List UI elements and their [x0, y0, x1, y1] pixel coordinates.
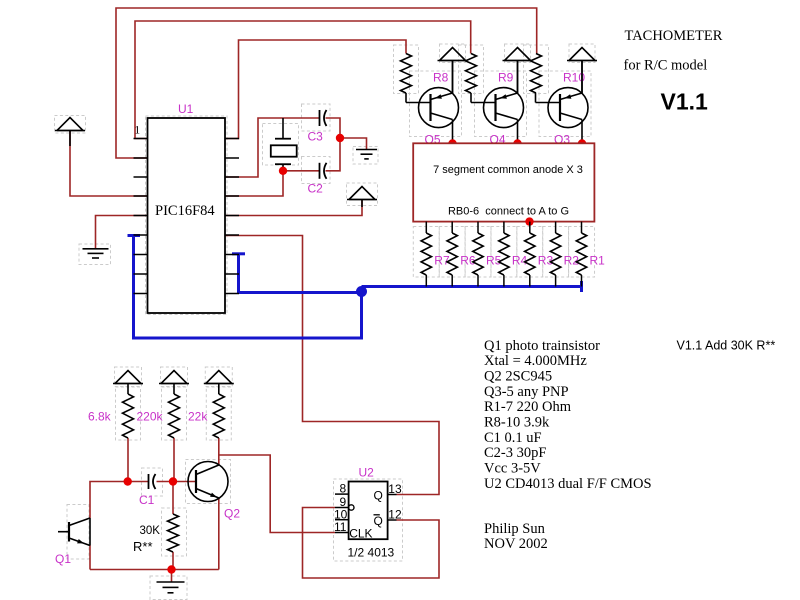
- wire: C3 right to junction: [326, 118, 341, 171]
- svg-text:C2-3 30pF: C2-3 30pF: [484, 445, 546, 461]
- wire: node to Q1 collector and emitter rail: [90, 482, 128, 519]
- transistor Q3 PNP: [548, 88, 588, 128]
- svg-text:R7: R7: [434, 254, 450, 268]
- svg-text:C1: C1: [139, 493, 155, 507]
- display block: 7 segment common anode X 3: [413, 143, 594, 221]
- svg-text:R2: R2: [564, 254, 580, 268]
- svg-text:CLK: CLK: [349, 527, 372, 541]
- resistor R7 220 Ohm: [425, 222, 427, 233]
- svg-text:R3: R3: [538, 254, 554, 268]
- svg-text:R1: R1: [590, 254, 606, 268]
- svg-text:NOV 2002: NOV 2002: [484, 536, 548, 552]
- IC U1 PIC16F84 body: [148, 118, 226, 313]
- resistor 22k: [213, 394, 224, 438]
- node: Q4 collector junction: [513, 139, 521, 147]
- U2 pin 8 stub: [335, 493, 349, 495]
- svg-text:Vcc 3-5V: Vcc 3-5V: [484, 460, 541, 476]
- svg-text:RB0-6 connect to A to G: RB0-6 connect to A to G: [448, 205, 569, 217]
- U1 right pin stubs: [225, 138, 239, 140]
- wire: 22k bottom to Q2 collector: [218, 438, 220, 465]
- svg-text:R5: R5: [486, 254, 502, 268]
- svg-text:R8: R8: [433, 71, 449, 85]
- node: rail / 30K / ground junction: [167, 565, 175, 573]
- capacitor C3: [319, 110, 321, 126]
- svg-text:8: 8: [340, 482, 347, 496]
- power arrow Vcc (Q5 emitter): [440, 48, 466, 61]
- resistor R8 3.9k: [401, 54, 412, 94]
- svg-text:PIC16F84: PIC16F84: [155, 203, 215, 219]
- svg-text:C3: C3: [308, 130, 324, 144]
- svg-text:C2: C2: [308, 182, 324, 196]
- power arrow Vcc (22k): [206, 371, 232, 384]
- U2 pin 12 stub (Qbar): [388, 519, 397, 521]
- wire: blue bus to resistor network R1-R7: [362, 285, 582, 288]
- svg-text:V1.1 Add 30K R**: V1.1 Add 30K R**: [677, 339, 776, 353]
- capacitor C2: [319, 163, 321, 179]
- wire: U1 pin L2 loop to R10 top: [116, 8, 537, 158]
- svg-text:11: 11: [334, 520, 347, 534]
- svg-text:Q1 photo trainsistor: Q1 photo trainsistor: [484, 338, 600, 354]
- wire: U1 pin R6 to U2 pin 13 (Q): [225, 236, 439, 495]
- wire: U1 pin R3 to crystal top / C3: [225, 118, 320, 177]
- U1 left pin stubs: [134, 138, 148, 140]
- wire: node 2 down to 30K: [172, 482, 174, 515]
- ground (left of U1): [83, 248, 109, 250]
- resistor 30K R**: [168, 514, 179, 552]
- resistor R1 220 Ohm: [581, 222, 583, 233]
- svg-text:R**: R**: [133, 539, 153, 554]
- part outline boxes (dashed): [55, 116, 86, 134]
- transistor Q1 photo transistor: [68, 522, 70, 542]
- svg-text:Q1: Q1: [55, 552, 71, 566]
- node: Q5 collector junction: [448, 139, 456, 147]
- transistor Q5 PNP: [419, 88, 459, 128]
- power arrow Vcc (220k): [161, 371, 187, 384]
- wire: 30K bottom to rail: [172, 552, 174, 570]
- svg-text:U2 CD4013 dual F/F CMOS: U2 CD4013 dual F/F CMOS: [484, 476, 652, 492]
- ground (bottom, at 30K): [157, 581, 185, 583]
- wire: U1 pin L1 loop to R9 top: [135, 21, 471, 139]
- svg-text:V1.1: V1.1: [661, 89, 709, 115]
- node: C1 / 220k / 30K / Q2 base junction: [169, 477, 177, 485]
- svg-text:R8-10 3.9k: R8-10 3.9k: [484, 414, 550, 430]
- wire: rail to bottom ground: [171, 570, 173, 582]
- U2 pin 11 stub: [335, 532, 349, 534]
- svg-text:R1-7 220 Ohm: R1-7 220 Ohm: [484, 399, 572, 415]
- wire: U1 pin R4 to crystal bottom / C2: [225, 171, 320, 196]
- wire: junction to ground right of C3: [340, 138, 367, 149]
- wire: Q2 collector to U2 pin 11 (CLK): [219, 455, 335, 533]
- svg-text:for R/C model: for R/C model: [624, 58, 708, 74]
- resistor R3 220 Ohm: [529, 222, 531, 233]
- svg-text:R6: R6: [460, 254, 476, 268]
- wire: Q2 emitter down to rail: [218, 498, 220, 570]
- node: display bottom junction: [525, 217, 533, 225]
- svg-text:U1: U1: [178, 102, 194, 116]
- power arrow Vcc (6.8k): [115, 371, 141, 384]
- power arrow Vcc (Q4 emitter): [505, 48, 531, 61]
- wire: 6.8k / C1 / Q1 node: [127, 438, 129, 482]
- svg-text:12: 12: [388, 507, 402, 521]
- wire: 220k bottom to node 2: [173, 438, 175, 482]
- wire: blue bus from U1 pin L6: [128, 234, 141, 237]
- U2 pin 13 stub (Q): [388, 494, 397, 496]
- capacitor C1 0.1uF: [148, 474, 150, 489]
- power arrow Vcc (top left): [57, 118, 83, 131]
- node: C3/C2 right junction: [336, 134, 344, 142]
- svg-text:Q3-5 any PNP: Q3-5 any PNP: [484, 384, 569, 400]
- power arrow Vcc (Q3 emitter): [569, 48, 595, 61]
- svg-text:6.8k: 6.8k: [88, 410, 112, 424]
- wire: U1 pin L4 to Vcc arrow: [70, 131, 148, 196]
- resistor R9 3.9k: [466, 54, 477, 94]
- svg-text:22k: 22k: [188, 410, 208, 424]
- svg-text:R4: R4: [512, 254, 528, 268]
- svg-text:Xtal = 4.000MHz: Xtal = 4.000MHz: [484, 353, 587, 369]
- resistor R10 3.9k: [531, 54, 542, 94]
- resistor R5 220 Ohm: [477, 222, 479, 233]
- svg-text:1/2 4013: 1/2 4013: [348, 546, 395, 560]
- resistor R6 220 Ohm: [451, 222, 453, 233]
- resistor 6.8k: [123, 394, 134, 438]
- svg-text:Q2 2SC945: Q2 2SC945: [484, 368, 552, 384]
- node: 6.8k / C1 / Q1 junction: [124, 477, 132, 485]
- resistor R2 220 Ohm: [555, 222, 557, 233]
- wire: U1 pin R5 to Vcc arrow: [225, 200, 362, 216]
- node: blue bus junction: [356, 286, 367, 297]
- wire: blue bus from U1 pin R7: [232, 252, 245, 255]
- resistor R4 220 Ohm: [503, 222, 505, 233]
- svg-text:U2: U2: [359, 466, 375, 480]
- transistor Q4 PNP: [484, 88, 524, 128]
- node: crystal bottom junction: [279, 167, 287, 175]
- wire: U1 pin L5 to ground: [96, 216, 148, 249]
- U2 pin 9 stub with bubble: [335, 507, 349, 509]
- power arrow Vcc (right of C2): [349, 187, 375, 200]
- ground (right of C3): [356, 149, 377, 151]
- svg-text:R9: R9: [498, 71, 514, 85]
- svg-text:220k: 220k: [137, 410, 164, 424]
- svg-text:C1 0.1 uF: C1 0.1 uF: [484, 430, 542, 446]
- transistor Q2 NPN 2SC945: [188, 462, 228, 502]
- wire: C1 right to Q2 base: [157, 481, 197, 483]
- wire: ground rail Q1 to Q2 emitter: [90, 569, 219, 571]
- resistor 220k: [169, 394, 180, 438]
- svg-text:7 segment common anode X 3: 7 segment common anode X 3: [433, 164, 583, 176]
- U2 pin 10 stub: [335, 519, 349, 521]
- node: Q3 collector junction: [578, 139, 586, 147]
- svg-text:TACHOMETER: TACHOMETER: [625, 28, 723, 44]
- svg-text:Q: Q: [374, 489, 383, 503]
- wire: U1 pin R1 loop to R8 top: [225, 40, 406, 139]
- svg-text:13: 13: [388, 482, 402, 496]
- svg-text:Q: Q: [374, 514, 383, 528]
- svg-text:30K: 30K: [140, 525, 161, 537]
- svg-text:1: 1: [134, 123, 140, 137]
- crystal Y1 4MHz: [282, 118, 284, 139]
- svg-text:Q2: Q2: [224, 507, 240, 521]
- svg-text:Philip Sun: Philip Sun: [484, 521, 546, 537]
- wire: U2 pin 12 (Qbar) to U2 pin 9 (D): [303, 508, 440, 579]
- IC U2 CD4013 body: [349, 482, 388, 540]
